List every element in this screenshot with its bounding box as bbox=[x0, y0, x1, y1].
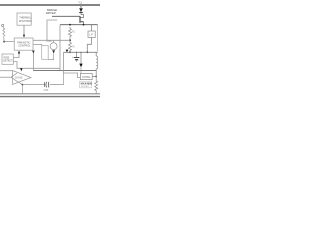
wire right column top bbox=[95, 52, 97, 56]
wire W2 with down arrow onto amp bbox=[13, 62, 60, 69]
node junction bbox=[83, 24, 85, 26]
wire into control box bbox=[4, 41, 14, 43]
wire from load box down and left bbox=[87, 37, 91, 52]
wire top supply rail bbox=[0, 4, 100, 6]
node junction bbox=[69, 24, 71, 26]
svg-text:CNTRL: CNTRL bbox=[82, 76, 91, 79]
wire from terminal down bbox=[80, 6, 82, 8]
wire to piezo cap bbox=[23, 84, 45, 86]
wire right corner drop bbox=[95, 69, 98, 71]
resistor R1 bbox=[69, 27, 72, 40]
node divider tap bbox=[69, 39, 71, 41]
wire with arrow from thermal box bbox=[23, 25, 25, 34]
svg-text:CONTROL: CONTROL bbox=[18, 45, 31, 48]
arrow into mid bus bbox=[66, 50, 69, 53]
node junction bbox=[76, 52, 77, 53]
node junction bbox=[80, 52, 81, 53]
svg-text:OSC: OSC bbox=[46, 40, 52, 43]
wire base rail bbox=[52, 15, 80, 17]
svg-text:DRIVER: DRIVER bbox=[46, 11, 56, 15]
svg-text:CPZ: CPZ bbox=[44, 89, 49, 92]
wire W1 with up arrow into control box bbox=[13, 53, 19, 57]
wire osc to tap bbox=[53, 40, 55, 43]
svg-text:+: + bbox=[72, 55, 74, 59]
op-amp U1 bbox=[13, 71, 32, 85]
small box bbox=[42, 46, 49, 60]
transistor Q1 base bar bbox=[79, 16, 81, 23]
waveform control box bbox=[14, 38, 33, 50]
left input terminal bbox=[2, 24, 4, 26]
node VIN terminal bbox=[80, 4, 82, 6]
diode D1 bbox=[79, 8, 83, 12]
wire long control line bbox=[33, 69, 95, 71]
wire from controller box right bbox=[92, 75, 96, 77]
transistor Q1 collector jog bbox=[80, 15, 83, 18]
wire right border vertical bbox=[97, 25, 99, 53]
bridge outline bbox=[47, 20, 57, 40]
wire bottom rail 2 / ground bus bbox=[0, 96, 100, 98]
wire from divider bus down then right bbox=[64, 52, 81, 77]
resistor R4 bbox=[3, 27, 5, 40]
resistor R2 bbox=[69, 41, 72, 52]
wire down to rail bbox=[22, 85, 24, 94]
svg-text:SENSE: SENSE bbox=[15, 78, 23, 80]
svg-text:DETECT: DETECT bbox=[3, 60, 13, 63]
wire arrow out of control box bottom bbox=[32, 50, 34, 70]
resistor R3 bbox=[95, 76, 98, 93]
node junction bbox=[22, 84, 24, 86]
capacitor CP (curved plates) bbox=[44, 82, 46, 87]
node junction bbox=[3, 41, 5, 43]
wire up from cap wire to divider bus path bbox=[63, 73, 65, 85]
battery B1 bbox=[76, 52, 78, 57]
wire lower link from control box bbox=[33, 45, 42, 46]
wire output rail bbox=[60, 24, 98, 26]
svg-text:MAX4990: MAX4990 bbox=[81, 82, 93, 86]
inductor L1 bbox=[96, 56, 98, 69]
wire bottom rail 1 bbox=[0, 93, 100, 95]
oscillator circle bbox=[50, 43, 57, 50]
wire amp lower input fork bbox=[0, 76, 11, 78]
thermal shutdown box bbox=[17, 13, 31, 25]
wire cap right bbox=[50, 84, 64, 86]
sense amp box bbox=[2, 54, 13, 64]
controller box bbox=[80, 73, 92, 79]
wire mid horizontal bus bbox=[64, 51, 98, 53]
wire drop to load box bbox=[91, 25, 93, 31]
wire amp top input bbox=[0, 70, 13, 72]
node junction bbox=[69, 51, 71, 53]
wire vertical from rail corner bbox=[59, 25, 61, 71]
svg-text:R1: R1 bbox=[72, 30, 76, 34]
faint box around part label bbox=[80, 81, 92, 88]
svg-text:LP: LP bbox=[89, 33, 93, 37]
arrow below oscillator bbox=[52, 50, 55, 53]
wire feedback tap line bbox=[33, 39, 70, 41]
node junction bbox=[86, 51, 88, 53]
load box bbox=[88, 31, 95, 37]
transistor Q1 emitter with arrow bbox=[80, 22, 83, 25]
svg-text:SHUTDWN: SHUTDWN bbox=[19, 20, 32, 23]
wire with down arrow to controller bbox=[80, 52, 82, 63]
svg-text:V+: V+ bbox=[79, 0, 83, 4]
node junction bbox=[95, 76, 97, 78]
svg-text:DRIVER: DRIVER bbox=[81, 86, 89, 88]
svg-text:R2: R2 bbox=[72, 45, 76, 49]
